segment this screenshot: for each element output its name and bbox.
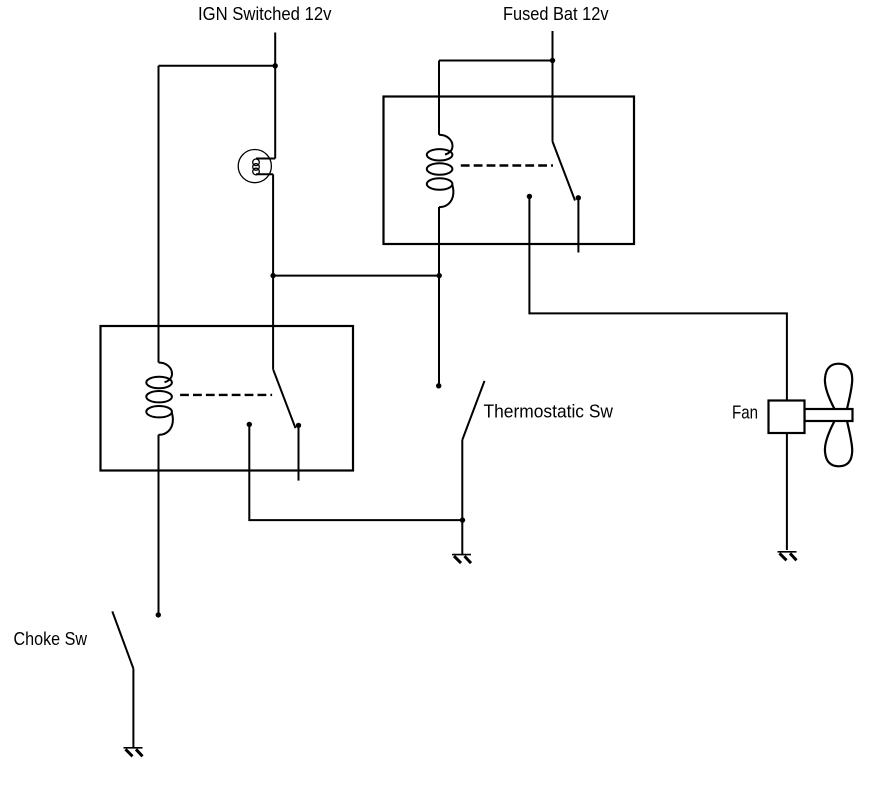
fan shaft bbox=[805, 409, 853, 421]
node thermostatic junction bbox=[460, 517, 465, 522]
choke switch lever bbox=[112, 611, 133, 668]
wire IGN branch horizontal bbox=[159, 65, 276, 67]
wire relay K2 coil feed bbox=[438, 61, 440, 135]
relay K1 dashed link bbox=[180, 394, 272, 396]
wire IGN feed vertical bbox=[274, 33, 276, 159]
node coil exit terminal dot bbox=[436, 383, 441, 388]
wire relay K2 NO terminal bbox=[577, 199, 579, 253]
lamp L1 bbox=[238, 150, 275, 183]
relay K2 box bbox=[384, 97, 635, 245]
fan motor box bbox=[769, 401, 805, 434]
wire relay K2 coil exit bbox=[438, 207, 440, 386]
relay K2 switch lever bbox=[553, 142, 576, 201]
svg-text:Thermostatic Sw: Thermostatic Sw bbox=[484, 401, 614, 422]
node IGN junction bbox=[273, 63, 278, 68]
relay K1 coil bbox=[146, 363, 173, 435]
relay K2 coil bbox=[427, 135, 454, 207]
wire relay K2 contact to fan bbox=[529, 198, 787, 401]
node coil-line junction bbox=[437, 273, 442, 278]
fan blade lower bbox=[825, 421, 852, 466]
wire relay K1 contact to thermostatic switch bbox=[249, 426, 462, 520]
wire relay K1 coil feed bbox=[158, 66, 160, 363]
relay K2 dashed link bbox=[461, 164, 553, 166]
fan blade upper bbox=[825, 364, 852, 409]
node lamp-exit junction bbox=[270, 273, 275, 278]
node choke terminal dot bbox=[156, 612, 161, 617]
wire lamp to relay K1 common bbox=[272, 174, 274, 369]
relay K2 lever contact dot bbox=[576, 195, 581, 200]
svg-text:Fan: Fan bbox=[732, 402, 758, 423]
relay K1 lever contact dot bbox=[296, 423, 301, 428]
wire fan to ground bbox=[786, 433, 788, 550]
ground (choke) bbox=[124, 748, 143, 757]
wire Fused Bat drop / relay K2 common bbox=[552, 31, 554, 142]
relay K1 contact dot bbox=[247, 422, 252, 427]
thermostatic switch lever bbox=[462, 381, 484, 440]
wire choke switch to ground bbox=[132, 669, 134, 748]
relay K1 switch lever bbox=[273, 369, 295, 428]
relay K1 box bbox=[101, 326, 354, 471]
ground (thermostatic) bbox=[452, 555, 471, 564]
svg-text:IGN Switched 12v: IGN Switched 12v bbox=[198, 3, 332, 24]
node Fused Bat junction bbox=[550, 58, 555, 63]
wire Fused Bat branch horizontal bbox=[439, 60, 553, 62]
svg-text:Fused Bat 12v: Fused Bat 12v bbox=[503, 3, 609, 24]
svg-text:Choke Sw: Choke Sw bbox=[14, 628, 88, 649]
wire relay K1 coil exit bbox=[158, 435, 160, 615]
wire thermostatic switch to ground bbox=[461, 440, 463, 555]
relay K2 contact dot bbox=[527, 194, 532, 199]
ground (fan) bbox=[778, 552, 797, 561]
wire cross link horizontal bbox=[273, 275, 439, 277]
wire relay K1 NO terminal bbox=[298, 427, 300, 481]
